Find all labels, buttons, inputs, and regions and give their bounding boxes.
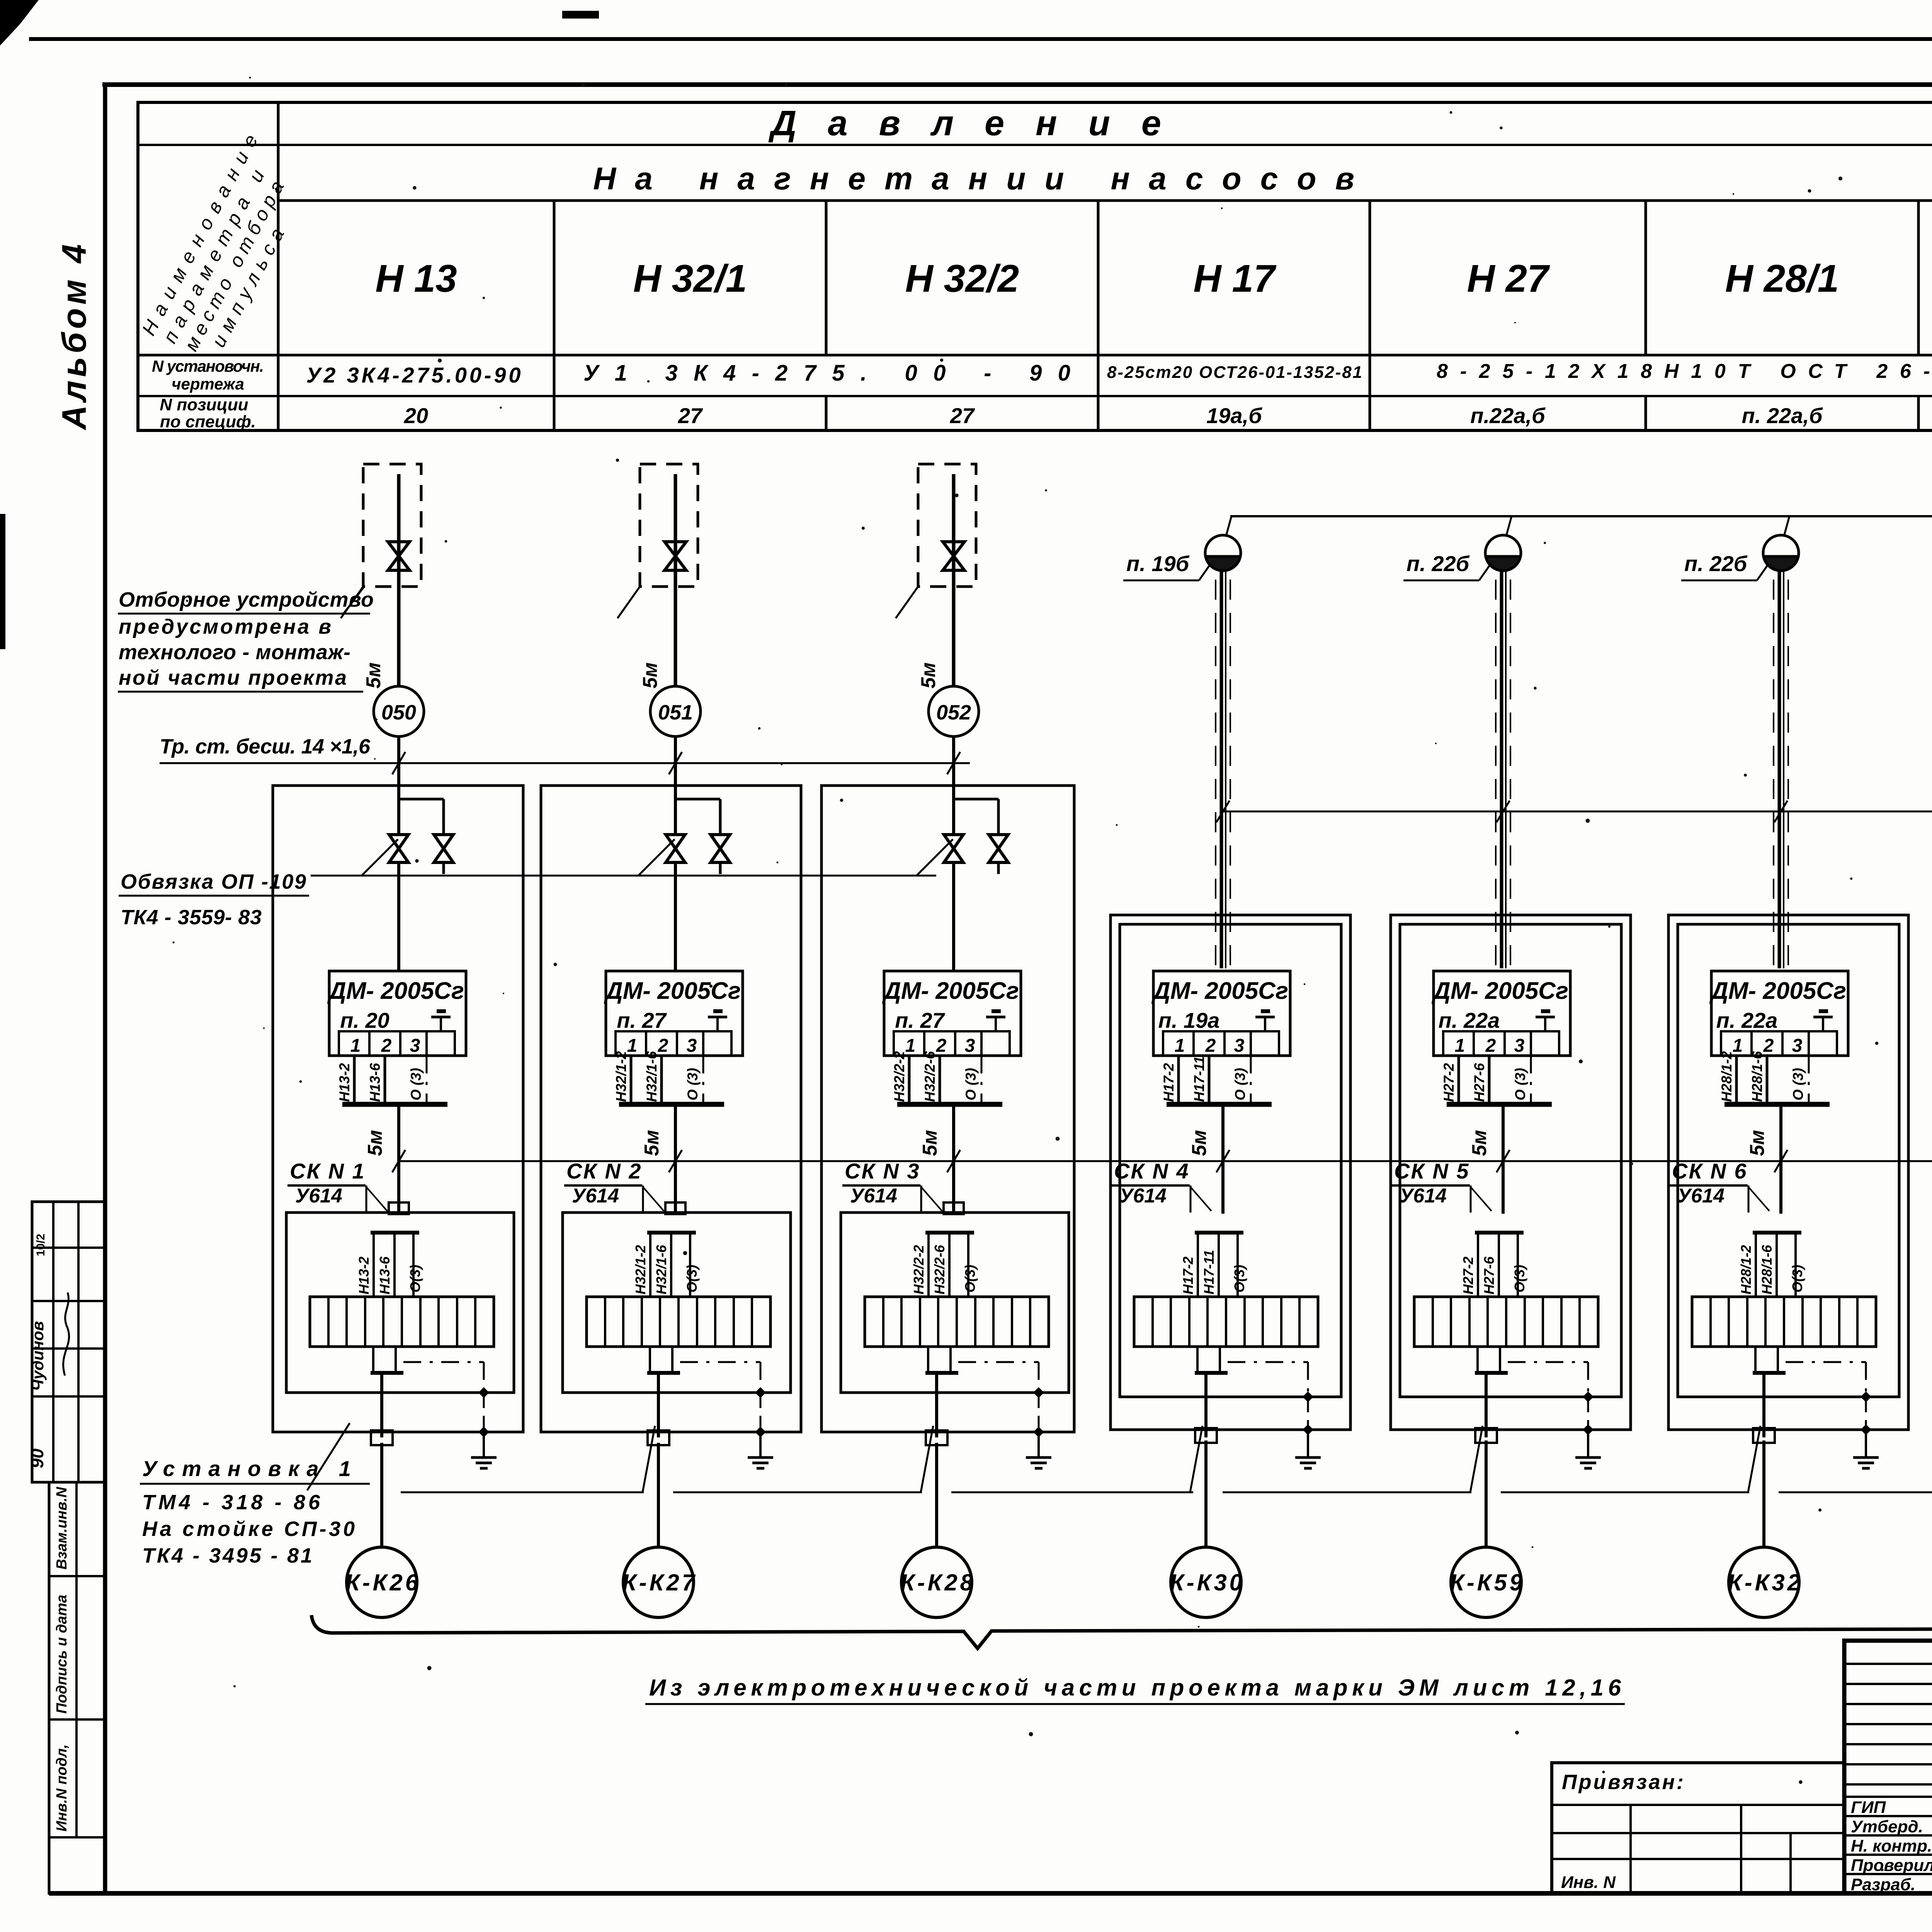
svg-text:1: 1 [350,1036,361,1056]
svg-text:Н17-11: Н17-11 [1201,1250,1217,1294]
svg-text:Н27-6: Н27-6 [1471,1063,1487,1102]
svg-text:Н27-2: Н27-2 [1460,1257,1476,1294]
svg-text:Н 32/2: Н 32/2 [905,257,1019,300]
svg-text:1: 1 [1175,1036,1185,1056]
svg-text:О (3): О (3) [408,1068,424,1100]
svg-text:050: 050 [381,701,416,724]
svg-text:27: 27 [678,403,703,428]
svg-text:Н27-6: Н27-6 [1481,1256,1497,1294]
svg-text:п. 22б: п. 22б [1406,551,1470,576]
svg-text:90: 90 [27,1448,47,1468]
svg-text:Из электротехнической части: Из электротехнической части проекта марк… [649,1675,1621,1701]
svg-text:К-К26: К-К26 [345,1570,418,1595]
svg-text:п. 22б: п. 22б [1684,551,1748,576]
svg-text:ной части проекта: ной части проекта [119,666,347,689]
svg-text:ДМ- 2005Сг: ДМ- 2005Сг [1709,978,1846,1004]
svg-text:К-К59: К-К59 [1450,1570,1523,1595]
svg-text:О(3): О(3) [1789,1265,1805,1293]
svg-text:Н32/1-6: Н32/1-6 [644,1051,660,1102]
svg-text:Н32/1-2: Н32/1-2 [633,1245,648,1294]
svg-text:Н17-11: Н17-11 [1191,1056,1207,1102]
svg-text:052: 052 [936,701,971,724]
svg-text:У614: У614 [295,1185,342,1207]
svg-text:Н28/1-6: Н28/1-6 [1749,1051,1765,1102]
svg-text:19а,б: 19а,б [1206,403,1262,428]
svg-text:п.22а,б: п.22а,б [1470,403,1546,428]
svg-text:п. 22а,б: п. 22а,б [1742,403,1823,428]
svg-text:20: 20 [404,403,428,428]
svg-text:3: 3 [965,1036,975,1056]
svg-text:Утберд.: Утберд. [1851,1817,1923,1836]
svg-text:5м: 5м [1188,1130,1211,1156]
svg-text:5м: 5м [639,662,662,688]
svg-text:2: 2 [1485,1036,1496,1056]
svg-text:У614: У614 [1119,1185,1167,1207]
svg-text:Обвязка ОП -109: Обвязка ОП -109 [121,870,306,893]
svg-text:051: 051 [658,701,693,724]
svg-text:О (3): О (3) [1790,1068,1806,1100]
svg-text:О (3): О (3) [963,1068,979,1100]
svg-text:О (3): О (3) [685,1068,701,1100]
svg-text:п. 19б: п. 19б [1126,551,1190,576]
svg-text:п. 20: п. 20 [340,1008,389,1032]
svg-text:предусмотрена в: предусмотрена в [119,615,331,638]
svg-text:Чудинов: Чудинов [29,1321,47,1391]
svg-text:К-К27: К-К27 [622,1570,696,1595]
svg-text:СК N 6: СК N 6 [1672,1159,1748,1183]
svg-text:Н32/2-6: Н32/2-6 [922,1051,938,1102]
svg-text:Н13-6: Н13-6 [367,1063,383,1102]
svg-text:О (3): О (3) [1232,1068,1248,1100]
svg-text:СК N 4: СК N 4 [1114,1159,1190,1183]
svg-text:10/2: 10/2 [34,1234,47,1256]
svg-text:технолого - монтаж-: технолого - монтаж- [119,641,350,664]
svg-text:К-К28: К-К28 [900,1570,973,1595]
svg-text:СК N 5: СК N 5 [1394,1159,1470,1183]
svg-text:Н28/1-6: Н28/1-6 [1759,1245,1775,1294]
svg-text:ТК4 - 3559- 83: ТК4 - 3559- 83 [121,906,262,929]
svg-text:Взам.инв.N: Взам.инв.N [54,1486,70,1570]
svg-text:Проверил: Проверил [1851,1856,1932,1875]
svg-text:ДМ- 2005Сг: ДМ- 2005Сг [1431,978,1568,1004]
svg-text:Н 28/1: Н 28/1 [1725,257,1839,300]
svg-text:О(3): О(3) [684,1265,700,1293]
svg-text:5м: 5м [364,1130,386,1156]
svg-text:ДМ- 2005Сг: ДМ- 2005Сг [882,978,1019,1004]
svg-text:СК N 3: СК N 3 [845,1159,920,1183]
svg-text:Н32/2-2: Н32/2-2 [891,1051,907,1102]
svg-text:Н27-2: Н27-2 [1441,1063,1457,1102]
svg-text:О (3): О (3) [1512,1068,1528,1100]
svg-text:СК N 2: СК N 2 [566,1159,642,1183]
svg-text:Н. контр.: Н. контр. [1851,1837,1932,1855]
svg-text:На стойке СП-30: На стойке СП-30 [142,1517,355,1541]
svg-text:3: 3 [1234,1036,1245,1056]
svg-text:У614: У614 [1400,1185,1447,1207]
svg-text:Н13-2: Н13-2 [337,1063,352,1102]
svg-text:Н32/1-2: Н32/1-2 [613,1051,629,1102]
svg-text:Н17-2: Н17-2 [1161,1063,1177,1102]
svg-text:ДМ- 2005Сг: ДМ- 2005Сг [327,978,464,1004]
svg-text:5м: 5м [917,662,940,688]
svg-text:Н 13: Н 13 [375,257,457,300]
svg-text:Инв. N: Инв. N [1561,1873,1616,1892]
svg-text:3: 3 [1514,1036,1525,1056]
svg-text:27: 27 [950,403,975,428]
svg-text:п. 22а: п. 22а [1439,1008,1500,1032]
svg-text:5м: 5м [919,1130,941,1156]
svg-text:п. 27: п. 27 [895,1008,945,1032]
svg-text:К-К30: К-К30 [1170,1570,1242,1595]
svg-text:Н17-2: Н17-2 [1180,1257,1196,1294]
svg-text:Н13-6: Н13-6 [377,1256,393,1294]
svg-text:Разраб.: Разраб. [1851,1875,1915,1894]
svg-text:Н28/1-2: Н28/1-2 [1738,1245,1754,1294]
svg-text:чертежа: чертежа [172,375,244,393]
svg-text:Привязан:: Привязан: [1562,1770,1684,1794]
svg-text:На нагнетании насосов: На нагнетании насосов [593,161,1354,196]
svg-text:К-К32: К-К32 [1728,1570,1800,1595]
svg-text:ГИП: ГИП [1851,1798,1886,1817]
svg-text:Н 32/1: Н 32/1 [633,257,747,300]
svg-text:У614: У614 [572,1185,619,1207]
svg-text:Тр. ст. бесш. 14 ×1,6: Тр. ст. бесш. 14 ×1,6 [160,735,371,758]
svg-text:2: 2 [381,1036,392,1056]
svg-text:5м: 5м [1468,1130,1491,1156]
svg-text:Н32/2-2: Н32/2-2 [911,1245,927,1294]
svg-text:ТМ4 - 318 - 86: ТМ4 - 318 - 86 [142,1491,320,1514]
svg-text:О(3): О(3) [1512,1265,1527,1293]
svg-text:3: 3 [1792,1036,1803,1056]
svg-text:п. 19а: п. 19а [1158,1008,1220,1032]
svg-text:Н 17: Н 17 [1193,257,1277,300]
svg-text:N позиции: N позиции [160,395,248,414]
svg-text:Отборное устройство: Отборное устройство [119,588,374,611]
svg-text:1: 1 [1455,1036,1465,1056]
svg-text:Н28/1-2: Н28/1-2 [1719,1051,1735,1102]
svg-text:У614: У614 [1677,1185,1725,1207]
svg-text:3: 3 [687,1036,697,1056]
svg-text:ДМ- 2005Сг: ДМ- 2005Сг [604,978,741,1004]
svg-text:О(3): О(3) [407,1265,423,1293]
svg-text:п. 22а: п. 22а [1716,1008,1778,1032]
svg-text:п. 27: п. 27 [617,1008,667,1032]
svg-text:Подпись и дата: Подпись и дата [54,1595,70,1714]
svg-text:5м: 5м [641,1130,663,1156]
svg-text:5м: 5м [362,662,385,688]
svg-text:по специф.: по специф. [160,412,256,431]
svg-text:У614: У614 [850,1185,897,1207]
svg-text:СК N 1: СК N 1 [290,1159,366,1183]
svg-text:Н32/2-6: Н32/2-6 [932,1245,947,1294]
svg-text:2: 2 [1205,1036,1216,1056]
svg-text:Инв.N подл,: Инв.N подл, [54,1744,70,1832]
svg-text:3: 3 [410,1036,420,1056]
svg-text:Н 27: Н 27 [1467,257,1550,300]
svg-text:ДМ- 2005Сг: ДМ- 2005Сг [1151,978,1288,1004]
svg-text:О(3): О(3) [1231,1265,1247,1293]
svg-text:О(3): О(3) [962,1265,978,1293]
svg-text:Н32/1-6: Н32/1-6 [653,1245,669,1294]
svg-text:У2 3К4-275.00-90: У2 3К4-275.00-90 [306,363,521,387]
svg-text:N установочн.: N установочн. [152,357,264,375]
svg-text:Н13-2: Н13-2 [356,1257,372,1294]
svg-text:5м: 5м [1746,1130,1769,1156]
